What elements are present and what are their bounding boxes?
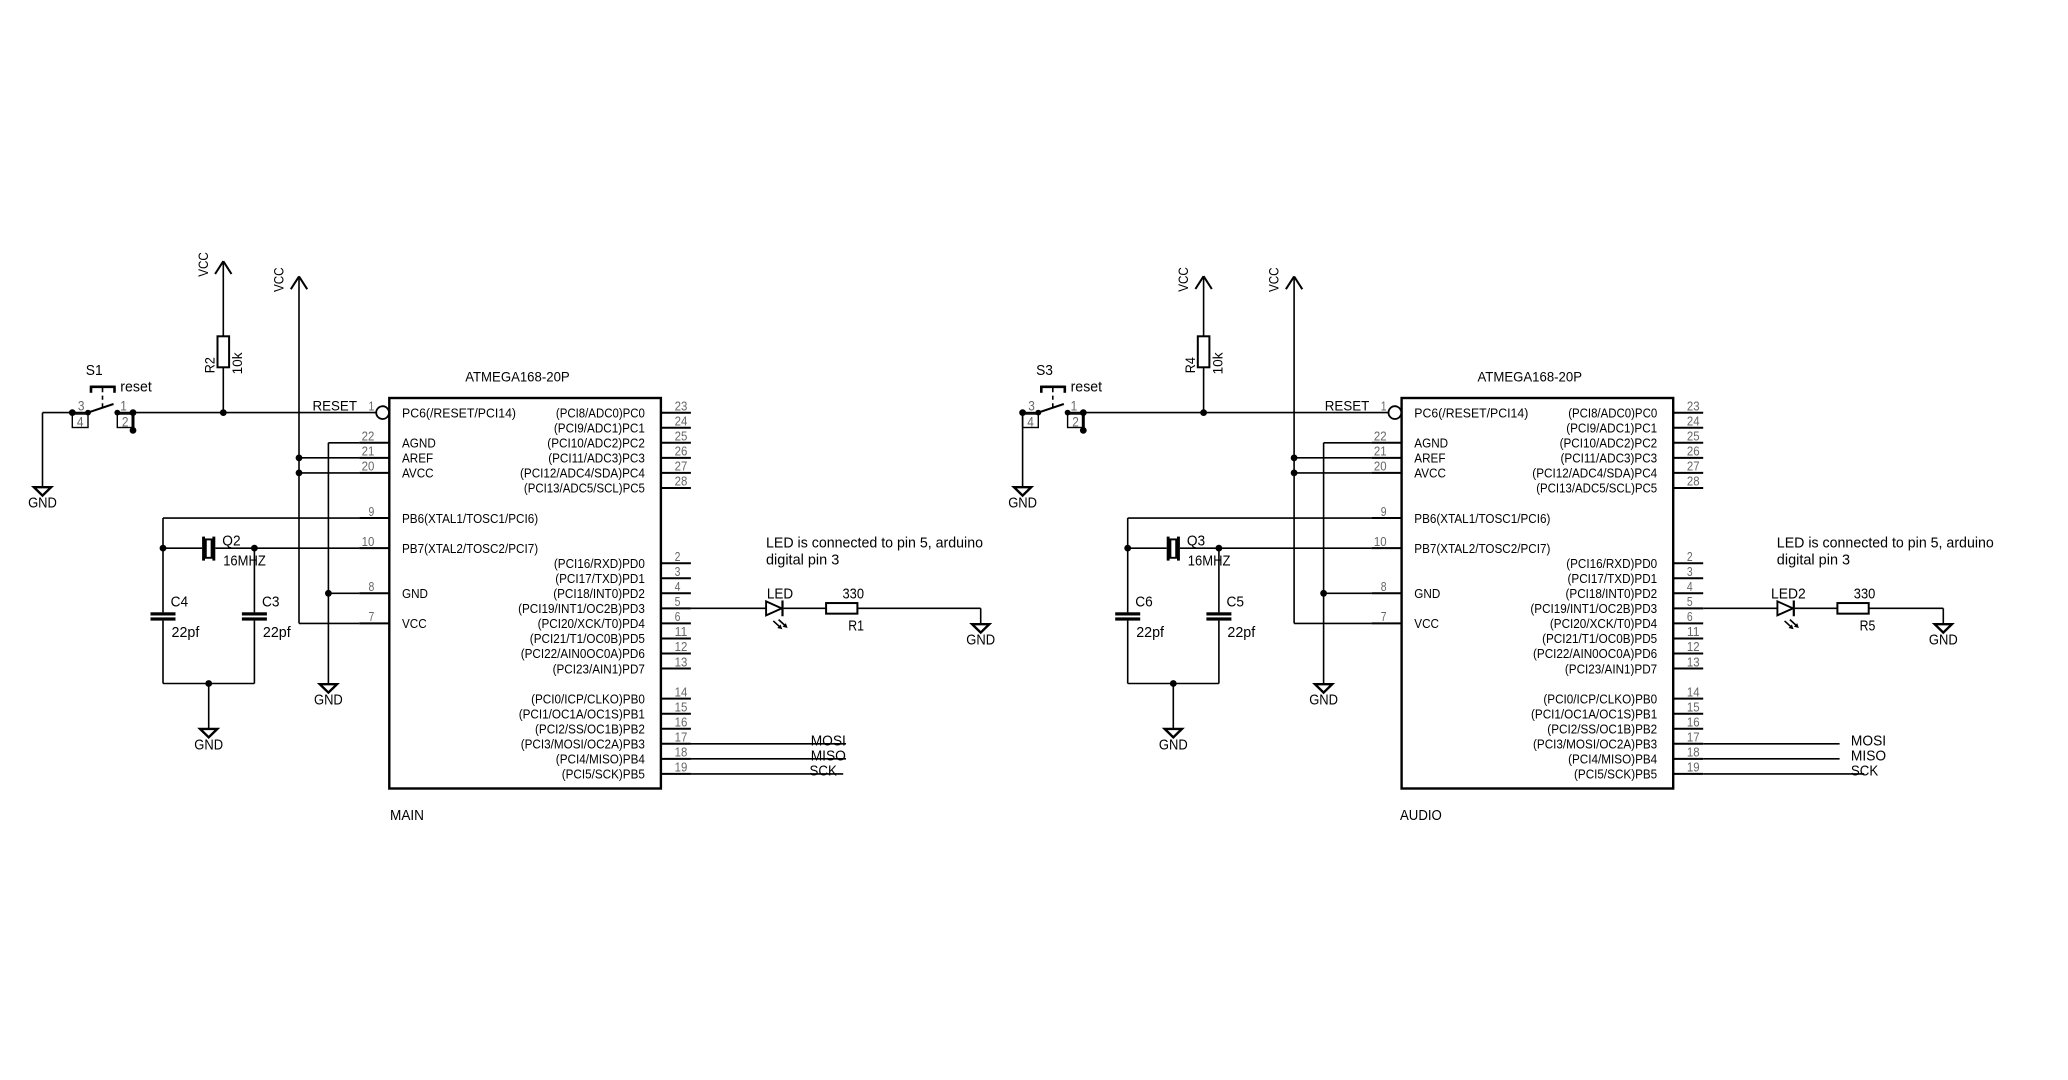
svg-text:PC6(/RESET/PCI14): PC6(/RESET/PCI14) [402,405,516,420]
svg-text:23: 23 [675,398,688,413]
svg-text:17: 17 [1687,730,1700,745]
ground below S1 [28,487,57,511]
junction VCC rail / AVCC [1291,470,1298,477]
svg-text:ATMEGA168-20P: ATMEGA168-20P [465,368,570,384]
svg-text:(PCI12/ADC4/SDA)PC4: (PCI12/ADC4/SDA)PC4 [520,466,645,481]
svg-text:LED is connected to pin 5, ard: LED is connected to pin 5, arduino [1777,534,1994,551]
svg-text:14: 14 [1687,684,1700,699]
pin 6 stub of U-AUDIO [1673,622,1703,624]
svg-text:21: 21 [1374,444,1387,459]
pin 26 stub of U-MAIN [661,457,691,459]
pin 6 stub of U-MAIN [661,622,691,624]
pin 8 stub of U-MAIN [359,592,389,594]
svg-text:VCC: VCC [271,267,287,292]
wire RESET net to IC pin 1 [117,412,376,414]
svg-text:5: 5 [675,594,681,609]
ground LED ground AUDIO [1929,624,1958,648]
pin 22 stub of U-MAIN [359,442,389,444]
svg-text:R2: R2 [202,357,218,373]
svg-text:GND: GND [28,495,57,512]
svg-text:22pf: 22pf [1227,624,1256,641]
junction at R4 bottom [1200,409,1207,416]
svg-text:1: 1 [369,398,375,413]
svg-text:(PCI21/T1/OC0B)PD5: (PCI21/T1/OC0B)PD5 [530,631,645,646]
pin 5 stub of U-MAIN [661,607,691,609]
pin 13 stub of U-AUDIO [1673,668,1703,670]
wire C3 bottom [253,621,255,684]
wire C5 bottom [1218,621,1220,684]
pin 2 stub of U-MAIN [661,562,691,564]
svg-text:26: 26 [1687,444,1700,459]
svg-text:AGND: AGND [1414,436,1448,451]
svg-text:10: 10 [362,534,375,549]
junction capacitor ground bus [1170,680,1177,687]
svg-text:1: 1 [1071,398,1078,414]
wire ground drop of crystal [1172,684,1174,729]
svg-text:PB7(XTAL2/TOSC2/PCI7): PB7(XTAL2/TOSC2/PCI7) [1414,541,1550,556]
pin 4 stub of U-AUDIO [1673,592,1703,594]
wire RESET net to IC pin 1 [1068,412,1389,414]
crystal Q3 [1167,537,1180,561]
svg-text:(PCI5/SCK)PB5: (PCI5/SCK)PB5 [1574,767,1657,782]
wire R4 to RESET net [1203,367,1205,412]
svg-text:22pf: 22pf [172,624,201,641]
svg-text:LED: LED [767,585,793,602]
junction crystal right / C3 [251,545,258,552]
svg-text:20: 20 [1374,459,1387,474]
pin 10 stub of U-MAIN [359,547,389,549]
svg-text:Q2: Q2 [222,533,240,550]
svg-text:26: 26 [675,444,688,459]
wire C4 bottom [162,621,164,684]
resistor R5 [1837,603,1868,614]
svg-text:2: 2 [122,413,129,429]
pin 25 stub of U-AUDIO [1673,442,1703,444]
pin 15 stub of U-MAIN [661,713,691,715]
svg-text:(PCI18/INT0)PD2: (PCI18/INT0)PD2 [553,586,645,601]
svg-text:S1: S1 [86,362,103,379]
wire VCC rail to pin 7 VCC [1294,622,1372,624]
ground below S3 [1008,487,1037,511]
svg-text:ATMEGA168-20P: ATMEGA168-20P [1478,368,1583,384]
svg-text:(PCI17/TXD)PD1: (PCI17/TXD)PD1 [1568,571,1658,586]
svg-text:(PCI23/AIN1)PD7: (PCI23/AIN1)PD7 [1565,661,1657,676]
svg-text:GND: GND [1008,495,1037,512]
svg-text:(PCI13/ADC5/SCL)PC5: (PCI13/ADC5/SCL)PC5 [524,481,645,496]
svg-text:(PCI10/ADC2)PC2: (PCI10/ADC2)PC2 [1560,436,1658,451]
svg-text:11: 11 [675,624,688,639]
svg-text:3: 3 [1687,564,1693,579]
svg-text:GND: GND [1309,692,1338,709]
wire VCC to R2 [222,262,224,336]
pin 25 stub of U-MAIN [661,442,691,444]
pin 12 stub of U-AUDIO [1673,653,1703,655]
wire capacitor ground bus [163,683,254,685]
pin 14 stub of U-AUDIO [1673,698,1703,700]
svg-text:18: 18 [1687,745,1700,760]
svg-text:9: 9 [1381,504,1387,519]
svg-text:(PCI5/SCK)PB5: (PCI5/SCK)PB5 [562,767,645,782]
wire pin 8 GND to ground rail [1324,592,1372,594]
svg-text:10k: 10k [1209,351,1225,374]
pin 5 stub of U-AUDIO [1673,607,1703,609]
capacitor C5 [1206,612,1231,620]
svg-text:4: 4 [1687,579,1693,594]
pin 4 stub of U-MAIN [661,592,691,594]
pin 2 stub of U-AUDIO [1673,562,1703,564]
svg-text:VCC: VCC [1175,267,1191,292]
pin 21 stub of U-MAIN [359,457,389,459]
junction ground rail / pin 8 [325,590,332,597]
note text [766,534,983,568]
svg-text:(PCI1/OC1A/OC1S)PB1: (PCI1/OC1A/OC1S)PB1 [1531,706,1657,721]
wire AREF to VCC rail [1294,457,1372,459]
pin 14 stub of U-MAIN [661,698,691,700]
pin 16 stub of U-MAIN [661,728,691,730]
svg-text:4: 4 [1027,413,1034,429]
svg-text:3: 3 [675,564,681,579]
svg-text:17: 17 [675,730,688,745]
svg-text:GND: GND [1929,632,1958,649]
svg-text:6: 6 [1687,609,1693,624]
pin 19 stub of U-AUDIO [1673,773,1703,775]
wire AVCC to VCC rail [299,472,359,474]
ground digital ground AUDIO [1309,684,1338,708]
pin 23 stub of U-AUDIO [1673,412,1703,414]
pin 3 stub of U-AUDIO [1673,577,1703,579]
svg-text:VCC: VCC [195,252,211,277]
svg-text:11: 11 [1687,624,1700,639]
wire XTAL1 down to crystal [1127,518,1129,612]
svg-text:13: 13 [675,654,688,669]
pin 17 stub of U-MAIN [661,743,691,745]
wire XTAL1 (pin 9) net [1128,517,1372,519]
svg-text:R1: R1 [848,617,864,634]
LED LED2 [1777,600,1799,629]
svg-text:8: 8 [369,579,375,594]
pin 3 stub of U-MAIN [661,577,691,579]
svg-text:(PCI9/ADC1)PC1: (PCI9/ADC1)PC1 [554,420,645,435]
junction crystal right / C5 [1216,545,1223,552]
note text [1777,534,1994,568]
svg-text:3: 3 [78,398,85,414]
svg-text:GND: GND [194,736,223,753]
pin 27 stub of U-AUDIO [1673,472,1703,474]
svg-text:(PCI0/ICP/CLKO)PB0: (PCI0/ICP/CLKO)PB0 [531,691,645,706]
svg-text:7: 7 [369,609,375,624]
svg-text:1: 1 [1381,398,1387,413]
ground digital ground MAIN [314,684,343,708]
svg-text:21: 21 [362,444,375,459]
svg-text:RESET: RESET [1325,398,1370,414]
svg-text:25: 25 [675,429,688,444]
power VCC symbol rail MAIN [271,267,308,292]
svg-text:(PCI16/RXD)PD0: (PCI16/RXD)PD0 [1566,556,1657,571]
wire VCC rail vertical [298,277,300,623]
svg-text:reset: reset [1071,379,1103,396]
svg-text:C6: C6 [1135,594,1153,611]
svg-text:GND: GND [402,586,428,601]
svg-text:(PCI20/XCK/T0)PD4: (PCI20/XCK/T0)PD4 [538,616,645,631]
wire R5 to ground [1869,607,1944,609]
junction crystal left / C6 [1124,545,1131,552]
svg-text:PB7(XTAL2/TOSC2/PCI7): PB7(XTAL2/TOSC2/PCI7) [402,541,538,556]
pin 23 stub of U-MAIN [661,412,691,414]
pin 16 stub of U-AUDIO [1673,728,1703,730]
wire ground drop of S3 [1022,413,1024,488]
pin 11 stub of U-AUDIO [1673,637,1703,639]
pin 15 stub of U-AUDIO [1673,713,1703,715]
svg-text:14: 14 [675,684,688,699]
pin 21 stub of U-AUDIO [1372,457,1402,459]
pin 11 stub of U-MAIN [661,637,691,639]
pin 27 stub of U-MAIN [661,472,691,474]
svg-text:(PCI17/TXD)PD1: (PCI17/TXD)PD1 [555,571,645,586]
wire MOSI net [1703,743,1839,745]
svg-text:13: 13 [1687,654,1700,669]
switch S1 (reset pushbutton) [69,386,137,434]
pin 17 stub of U-AUDIO [1673,743,1703,745]
svg-text:19: 19 [1687,760,1700,775]
svg-text:PB6(XTAL1/TOSC1/PCI6): PB6(XTAL1/TOSC1/PCI6) [1414,511,1550,526]
ground crystal ground MAIN [194,729,223,753]
wire VCC to R4 [1203,277,1205,336]
svg-text:(PCI16/RXD)PD0: (PCI16/RXD)PD0 [554,556,645,571]
svg-text:(PCI11/ADC3)PC3: (PCI11/ADC3)PC3 [548,451,645,466]
svg-text:15: 15 [675,699,688,714]
svg-text:AVCC: AVCC [402,466,434,481]
svg-text:SCK: SCK [1851,763,1878,780]
wire crystal right plate to XTAL2 (pin 10) [1180,547,1372,549]
wire AGND to ground rail [1324,442,1372,444]
svg-text:330: 330 [1854,585,1876,602]
wire crystal left plate [163,547,202,549]
wire SCK net [1703,773,1864,775]
svg-text:2: 2 [675,549,681,564]
ground LED ground MAIN [966,624,995,648]
svg-text:LED is connected to pin 5, ard: LED is connected to pin 5, arduino [766,534,983,551]
pin 19 stub of U-MAIN [661,773,691,775]
wire crystal left plate [1128,547,1167,549]
svg-text:digital pin 3: digital pin 3 [766,551,839,568]
svg-text:(PCI8/ADC0)PC0: (PCI8/ADC0)PC0 [556,405,645,420]
svg-text:3: 3 [1028,398,1035,414]
svg-text:2: 2 [1072,413,1079,429]
svg-text:GND: GND [314,692,343,709]
svg-text:GND: GND [1414,586,1440,601]
svg-text:(PCI1/OC1A/OC1S)PB1: (PCI1/OC1A/OC1S)PB1 [519,706,645,721]
svg-text:VCC: VCC [1266,267,1282,292]
svg-text:25: 25 [1687,429,1700,444]
svg-text:19: 19 [675,760,688,775]
IC U-AUDIO ATMEGA168-20P body [1402,398,1674,789]
wire LED ground drop [1942,608,1944,624]
svg-text:reset: reset [120,379,152,396]
svg-text:(PCI2/SS/OC1B)PB2: (PCI2/SS/OC1B)PB2 [535,721,645,736]
pin 18 stub of U-MAIN [661,758,691,760]
pin 9 stub of U-MAIN [359,517,389,519]
svg-text:(PCI22/AIN0OC0A)PD6: (PCI22/AIN0OC0A)PD6 [1533,646,1657,661]
svg-text:PB6(XTAL1/TOSC1/PCI6): PB6(XTAL1/TOSC1/PCI6) [402,511,538,526]
pin 22 stub of U-AUDIO [1372,442,1402,444]
resistor R2 [218,336,230,367]
junction ground rail / pin 8 [1320,590,1327,597]
svg-text:6: 6 [675,609,681,624]
pin 18 stub of U-AUDIO [1673,758,1703,760]
wire AGND to ground rail [328,442,359,444]
crystal Q2 [202,537,215,561]
svg-text:RESET: RESET [313,398,358,414]
svg-text:1: 1 [120,398,127,414]
svg-text:Q3: Q3 [1187,533,1205,550]
svg-text:16: 16 [675,714,688,729]
wire ground drop of crystal [208,684,210,729]
wire LED2 to R5 [1795,607,1838,609]
svg-text:(PCI19/INT1/OC2B)PD3: (PCI19/INT1/OC2B)PD3 [518,601,645,616]
junction capacitor ground bus [205,680,212,687]
wire capacitor ground bus [1128,683,1219,685]
svg-text:(PCI4/MISO)PB4: (PCI4/MISO)PB4 [1568,752,1657,767]
wire XTAL1 (pin 9) net [163,517,359,519]
svg-text:12: 12 [675,639,688,654]
svg-text:AUDIO: AUDIO [1400,807,1442,824]
svg-text:(PCI4/MISO)PB4: (PCI4/MISO)PB4 [556,752,645,767]
wire VCC rail vertical [1293,277,1295,623]
svg-text:(PCI10/ADC2)PC2: (PCI10/ADC2)PC2 [547,436,645,451]
svg-text:GND: GND [966,632,995,649]
svg-text:5: 5 [1687,594,1693,609]
pin 10 stub of U-AUDIO [1372,547,1402,549]
wire pin 5 to LED2 [1703,607,1777,609]
wire pin 5 to LED [691,607,766,609]
pin 12 stub of U-MAIN [661,653,691,655]
svg-text:GND: GND [1159,736,1188,753]
svg-text:16MHZ: 16MHZ [1188,553,1231,570]
wire AREF to VCC rail [299,457,359,459]
wire VCC rail to pin 7 VCC [299,622,359,624]
pin 9 stub of U-AUDIO [1372,517,1402,519]
svg-text:(PCI20/XCK/T0)PD4: (PCI20/XCK/T0)PD4 [1550,616,1657,631]
wire ground drop of S1 [42,413,44,488]
pin 1 inversion circle of U-MAIN [376,406,389,419]
svg-text:10: 10 [1374,534,1387,549]
wire C5 top [1218,548,1220,612]
svg-text:24: 24 [675,413,688,428]
svg-text:(PCI0/ICP/CLKO)PB0: (PCI0/ICP/CLKO)PB0 [1543,691,1657,706]
power VCC symbol rail AUDIO [1266,267,1303,292]
svg-text:AREF: AREF [402,451,433,466]
svg-text:R4: R4 [1182,357,1198,373]
svg-text:PC6(/RESET/PCI14): PC6(/RESET/PCI14) [1414,405,1528,420]
svg-text:VCC: VCC [1414,616,1439,631]
svg-text:(PCI18/INT0)PD2: (PCI18/INT0)PD2 [1566,586,1658,601]
wire R2 to RESET net [222,367,224,412]
wire ground rail vertical [1323,443,1325,684]
svg-text:(PCI22/AIN0OC0A)PD6: (PCI22/AIN0OC0A)PD6 [521,646,645,661]
IC U-MAIN ATMEGA168-20P body [389,398,661,789]
svg-text:28: 28 [675,474,688,489]
wire C3 top [253,548,255,612]
svg-text:VCC: VCC [402,616,427,631]
svg-text:12: 12 [1687,639,1700,654]
wire SCK net [691,773,843,775]
resistor R1 [826,603,857,614]
pin 26 stub of U-AUDIO [1673,457,1703,459]
svg-text:23: 23 [1687,398,1700,413]
svg-text:(PCI21/T1/OC0B)PD5: (PCI21/T1/OC0B)PD5 [1542,631,1657,646]
wire AVCC to VCC rail [1294,472,1372,474]
svg-text:SCK: SCK [810,763,837,780]
svg-text:4: 4 [77,413,84,429]
wire MISO net [1703,758,1839,760]
pin 24 stub of U-MAIN [661,427,691,429]
svg-text:(PCI9/ADC1)PC1: (PCI9/ADC1)PC1 [1566,420,1657,435]
pin 8 stub of U-AUDIO [1372,592,1402,594]
svg-text:8: 8 [1381,579,1387,594]
wire R1 to ground [857,607,980,609]
resistor R4 [1198,336,1210,367]
svg-text:2: 2 [1687,549,1693,564]
svg-text:(PCI3/MOSI/OC2A)PB3: (PCI3/MOSI/OC2A)PB3 [1533,737,1657,752]
capacitor C4 [151,612,176,620]
svg-text:MAIN: MAIN [390,807,424,824]
power VCC symbol above R2 [195,252,232,277]
svg-text:S3: S3 [1036,362,1053,379]
svg-text:18: 18 [675,745,688,760]
svg-text:22: 22 [362,429,375,444]
svg-text:(PCI12/ADC4/SDA)PC4: (PCI12/ADC4/SDA)PC4 [1532,466,1657,481]
svg-text:27: 27 [675,459,688,474]
svg-text:LED2: LED2 [1771,585,1806,602]
svg-text:10k: 10k [229,351,245,374]
pin 24 stub of U-AUDIO [1673,427,1703,429]
svg-text:digital pin 3: digital pin 3 [1777,551,1850,568]
wire ground rail vertical [327,443,329,684]
svg-text:C5: C5 [1227,594,1245,611]
pin 1 inversion circle of U-AUDIO [1389,406,1402,419]
capacitor C3 [242,612,267,620]
svg-text:28: 28 [1687,474,1700,489]
wire LED ground drop [980,608,982,624]
svg-text:(PCI3/MOSI/OC2A)PB3: (PCI3/MOSI/OC2A)PB3 [521,737,645,752]
power VCC symbol above R4 [1175,267,1212,292]
svg-text:(PCI23/AIN1)PD7: (PCI23/AIN1)PD7 [553,661,645,676]
svg-text:16: 16 [1687,714,1700,729]
svg-text:(PCI8/ADC0)PC0: (PCI8/ADC0)PC0 [1568,405,1657,420]
svg-text:22: 22 [1374,429,1387,444]
svg-text:27: 27 [1687,459,1700,474]
svg-text:R5: R5 [1860,617,1876,634]
wire C6 bottom [1127,621,1129,684]
svg-text:9: 9 [369,504,375,519]
svg-text:(PCI13/ADC5/SCL)PC5: (PCI13/ADC5/SCL)PC5 [1536,481,1657,496]
junction at R2 bottom [220,409,227,416]
svg-text:15: 15 [1687,699,1700,714]
pin 20 stub of U-AUDIO [1372,472,1402,474]
LED LED [766,600,788,629]
svg-text:330: 330 [843,585,865,602]
svg-text:C4: C4 [171,594,189,611]
pin 7 stub of U-MAIN [359,622,389,624]
svg-text:(PCI2/SS/OC1B)PB2: (PCI2/SS/OC1B)PB2 [1547,721,1657,736]
svg-text:16MHZ: 16MHZ [223,553,266,570]
svg-text:22pf: 22pf [1136,624,1165,641]
svg-text:7: 7 [1381,609,1387,624]
wire MISO net [691,758,846,760]
svg-text:24: 24 [1687,413,1700,428]
svg-text:(PCI11/ADC3)PC3: (PCI11/ADC3)PC3 [1561,451,1658,466]
switch S3 (reset pushbutton) [1019,386,1087,434]
